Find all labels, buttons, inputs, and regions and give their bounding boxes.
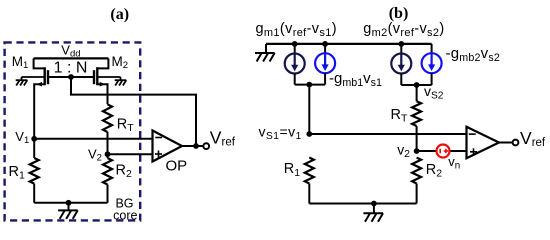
ground symbol (a) xyxy=(58,203,78,219)
svg-text:R1: R1 xyxy=(284,161,300,179)
svg-text:Vdd: Vdd xyxy=(61,43,80,60)
ground at M1 bulk xyxy=(16,77,28,86)
node ground junction (a) xyxy=(66,200,72,206)
svg-text:gm1(vref-vs1): gm1(vref-vs1) xyxy=(256,21,337,39)
svg-text:(b): (b) xyxy=(389,5,409,22)
svg-text:OP: OP xyxy=(166,158,188,175)
svg-text:vS1=v1: vS1=v1 xyxy=(259,124,302,143)
node vs1 xyxy=(306,131,312,137)
node rail-gm2 xyxy=(398,41,404,47)
svg-text:V1: V1 xyxy=(15,129,29,146)
resistor R1 xyxy=(30,139,39,203)
svg-text:vn: vn xyxy=(448,154,460,171)
svg-text:-gmb2vs2: -gmb2vs2 xyxy=(446,45,501,64)
BG core dashed boundary box xyxy=(5,42,141,220)
svg-text:v2: v2 xyxy=(397,141,410,160)
ground at top rail left end xyxy=(255,44,275,62)
op-amp (b) xyxy=(467,127,500,158)
node V1 xyxy=(31,136,37,142)
svg-text:V2: V2 xyxy=(88,147,102,164)
svg-text:Vref: Vref xyxy=(520,128,546,149)
node v2 xyxy=(414,148,420,154)
resistor R2 (b) xyxy=(412,158,421,204)
Vdd rail xyxy=(34,57,109,59)
wire RT to V2 xyxy=(107,132,109,154)
node left pair junction xyxy=(306,82,312,88)
resistor RT xyxy=(103,104,112,132)
wire down to vs1 node xyxy=(308,85,310,134)
svg-text:R2: R2 xyxy=(116,162,132,180)
ground symbol (b) xyxy=(363,204,383,222)
wire right pair bottom xyxy=(401,73,431,85)
resistor R1 (b) xyxy=(305,158,314,204)
wire ground rail (b) xyxy=(309,203,416,205)
node V2 xyxy=(105,151,111,157)
terminal Vref (a) xyxy=(203,143,209,149)
current source -gmb2vs2 xyxy=(422,44,442,73)
svg-text:RT: RT xyxy=(391,107,408,125)
wire vs1 row to op-amp minus input xyxy=(309,133,466,135)
svg-text:RT: RT xyxy=(117,116,134,134)
op-amp OP xyxy=(153,131,183,162)
node ground junction (b) xyxy=(371,201,377,207)
transistor M2 xyxy=(94,58,121,104)
node rail-gm1 xyxy=(292,41,298,47)
resistor R2 xyxy=(103,154,112,203)
noise source vn xyxy=(437,145,450,158)
current source gm2 xyxy=(391,44,411,74)
ground at M2 bulk xyxy=(115,77,127,86)
svg-text:1 : N: 1 : N xyxy=(54,59,88,76)
terminal Vref (b) xyxy=(513,140,519,146)
node rail-gmb1 xyxy=(322,41,328,47)
current source gm1 xyxy=(285,44,305,74)
svg-text:R2: R2 xyxy=(426,162,442,180)
current source -gmb1vs1 xyxy=(315,44,335,73)
svg-text:Vref: Vref xyxy=(210,127,236,148)
svg-text:core: core xyxy=(113,209,137,223)
wire V2 row to op-amp plus input xyxy=(108,153,153,155)
wire ground rail (a) xyxy=(34,202,107,204)
wire gate feedback from op-amp output xyxy=(71,77,196,146)
wire left pair bottom xyxy=(295,73,325,84)
resistor RT (b) xyxy=(412,101,421,126)
wire gate line M1-M2 xyxy=(48,76,94,78)
wire RT to v2 node xyxy=(416,126,418,151)
svg-text:-gmb1vs1: -gmb1vs1 xyxy=(329,70,382,89)
svg-text:gm2(vref-vs2): gm2(vref-vs2) xyxy=(363,21,444,39)
transistor M1 xyxy=(22,58,49,138)
node feedback junction xyxy=(193,143,199,149)
wire op-amp (b) output xyxy=(499,142,513,144)
wire v2 row to op-amp plus input xyxy=(417,150,467,152)
wire vs2 to RT xyxy=(416,85,418,101)
svg-text:M2: M2 xyxy=(112,54,129,71)
wire V1 row to op-amp minus input xyxy=(34,138,152,140)
node vs2 xyxy=(414,82,420,88)
node gate junction xyxy=(68,74,74,80)
svg-text:M1: M1 xyxy=(12,54,29,71)
svg-text:(a): (a) xyxy=(110,6,129,23)
svg-text:vS2: vS2 xyxy=(424,83,444,102)
wire top rail (b) xyxy=(266,43,432,45)
svg-text:R1: R1 xyxy=(9,164,25,182)
wire op-amp output xyxy=(182,145,203,147)
